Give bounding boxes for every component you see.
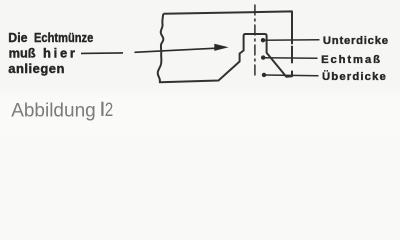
label: Die Echtmünze muß hier anliegen — [8, 30, 93, 76]
svg-text:Echtmünze: Echtmünze — [34, 30, 93, 45]
svg-text:Unterdicke: Unterdicke — [323, 35, 389, 47]
leader: Echtmaß — [261, 55, 265, 59]
arrow line — [135, 48, 217, 52]
svg-text:2: 2 — [105, 98, 113, 120]
leader: Unterdicke — [261, 38, 265, 42]
labels right — [321, 35, 389, 83]
part outline (cross-section with break edge) — [158, 11, 292, 82]
arrowhead — [214, 44, 228, 51]
centre line (dash-dot) — [254, 5, 256, 79]
svg-text:muß: muß — [9, 46, 36, 61]
svg-text:Überdicke: Überdicke — [322, 70, 387, 83]
leader: Überdicke — [262, 73, 266, 77]
svg-text:anliegen: anliegen — [8, 61, 65, 76]
svg-text:Echtmaß: Echtmaß — [321, 54, 382, 66]
svg-text:Abbildung: Abbildung — [11, 101, 96, 122]
leader dash from label — [81, 52, 123, 55]
caption: Abbildung 12 — [11, 98, 113, 121]
svg-text:Die: Die — [8, 30, 27, 45]
svg-text:hier: hier — [43, 46, 78, 61]
